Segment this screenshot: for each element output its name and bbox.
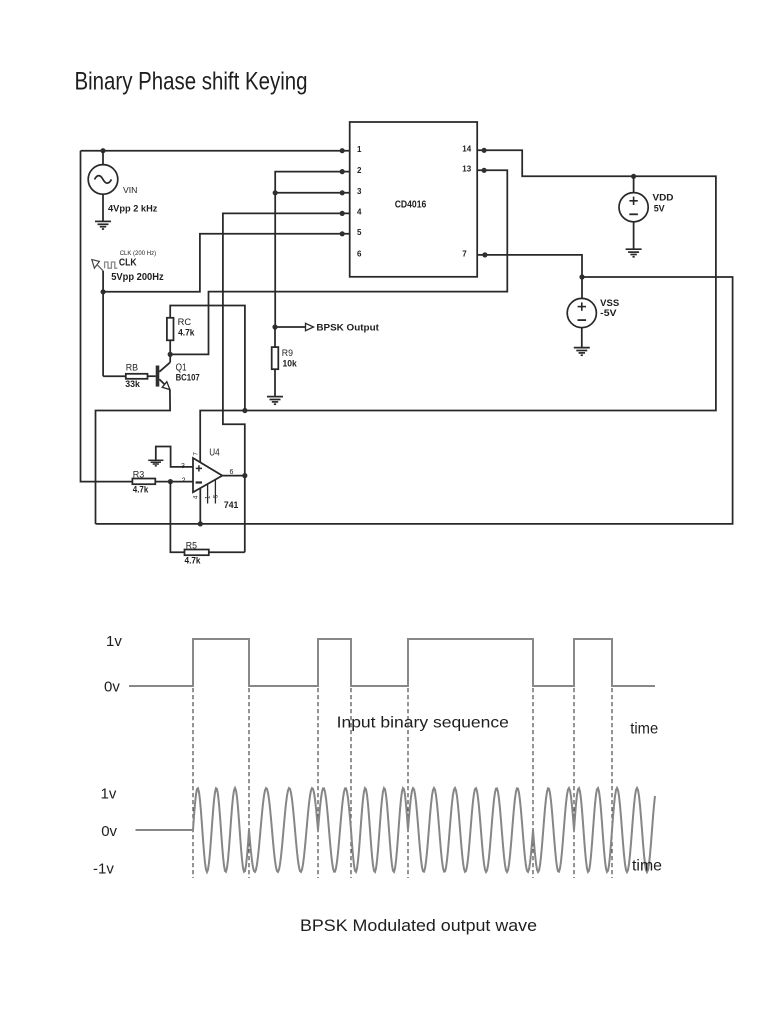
svg-text:VIN: VIN xyxy=(123,185,137,195)
svg-text:VSS: VSS xyxy=(600,298,619,308)
ground VDD xyxy=(626,249,642,257)
wire RC bottom to collector xyxy=(169,340,171,362)
svg-text:5Vpp 200Hz: 5Vpp 200Hz xyxy=(111,271,164,283)
wire pin 14 to VDD rail xyxy=(200,150,716,462)
wire pin 13 to collector node xyxy=(170,170,507,354)
svg-text:CD4016: CD4016 xyxy=(395,199,427,211)
wire pin 2 xyxy=(275,172,350,327)
node BPSK dot xyxy=(272,324,277,329)
node VDD tap dot xyxy=(631,174,636,179)
svg-text:Binary Phase shift Keying: Binary Phase shift Keying xyxy=(75,67,308,95)
node pin4 dot xyxy=(340,211,345,216)
svg-text:5V: 5V xyxy=(654,204,665,214)
transistor Q1 emitter arrowhead xyxy=(162,382,170,390)
node pin1 junction dot xyxy=(340,148,345,153)
wire R5 right up to op-amp output xyxy=(209,551,245,553)
svg-text:4.7k: 4.7k xyxy=(178,328,195,338)
waveform plot: BPSK modulated sine xyxy=(136,788,656,872)
svg-text:33k: 33k xyxy=(125,379,141,389)
node pin5 dot xyxy=(340,231,345,236)
svg-text:5: 5 xyxy=(213,494,219,498)
IC U2 CD4016 body xyxy=(350,122,478,277)
op-amp U4 triangle xyxy=(193,458,222,492)
svg-text:Input binary sequence: Input binary sequence xyxy=(337,715,509,732)
BPSK sine wave xyxy=(136,788,656,872)
source VSS stem bottom xyxy=(581,328,583,348)
svg-text:BC107: BC107 xyxy=(176,372,200,382)
ground R9 xyxy=(267,397,283,405)
svg-text:4.7k: 4.7k xyxy=(185,555,202,565)
svg-text:U4: U4 xyxy=(209,447,220,458)
wire pin 7 to VSS xyxy=(477,255,582,299)
node VIN top junction dot xyxy=(100,148,105,153)
resistor RB body xyxy=(126,374,148,379)
wire op-amp output xyxy=(222,475,245,477)
svg-text:1v: 1v xyxy=(106,633,122,650)
svg-text:BPSK Output: BPSK Output xyxy=(316,322,379,333)
op-amp stub pin 1 xyxy=(207,484,209,504)
node R3 junction dot xyxy=(168,479,173,484)
resistor R3 body xyxy=(132,479,155,485)
transistor Q1 base bar xyxy=(156,366,160,387)
resistor RC body xyxy=(167,318,174,341)
wire BPSK output xyxy=(275,326,306,328)
svg-text:RC: RC xyxy=(178,317,192,327)
svg-text:13: 13 xyxy=(462,165,471,174)
wire CLK to pin 5 xyxy=(103,234,350,292)
VDD plus sign xyxy=(629,197,637,205)
svg-text:7: 7 xyxy=(194,452,200,456)
wire pin 3 xyxy=(275,192,350,194)
VDD minus sign xyxy=(629,213,638,215)
node pins 2-3 junction dot xyxy=(273,190,278,195)
wire VSS rail right and bottom xyxy=(96,277,733,524)
wire emitter down to VSS rail xyxy=(96,390,171,524)
svg-text:6: 6 xyxy=(357,250,362,259)
node CLK junction dot xyxy=(101,289,106,294)
wire R9 top xyxy=(274,327,276,347)
svg-text:VDD: VDD xyxy=(653,192,675,202)
svg-text:4Vpp 2 kHz: 4Vpp 2 kHz xyxy=(108,204,158,215)
dashed bit boundary lines xyxy=(193,688,612,878)
wire left border down to R3 xyxy=(81,151,133,482)
svg-text:14: 14 xyxy=(462,144,471,153)
svg-text:4: 4 xyxy=(357,208,362,217)
resistor R5 body xyxy=(185,550,209,556)
svg-text:time: time xyxy=(632,858,662,875)
svg-text:4.7k: 4.7k xyxy=(133,485,149,495)
source VIN sine symbol xyxy=(95,176,112,184)
node pin3 dot xyxy=(340,190,345,195)
node pin13 dot xyxy=(482,168,487,173)
wire RB right to base xyxy=(148,375,156,377)
svg-text:2: 2 xyxy=(357,166,362,175)
wire R3 node down to R5 xyxy=(170,482,184,553)
ground VSS xyxy=(574,348,590,356)
source VIN stem bottom xyxy=(102,194,104,221)
node RC-VDD dot xyxy=(242,408,247,413)
source VSS circle xyxy=(567,298,596,327)
svg-text:10k: 10k xyxy=(283,359,298,369)
transistor Q1 collector lead xyxy=(159,362,170,372)
BPSK output arrowhead xyxy=(306,323,314,330)
wire CLK down to RB xyxy=(102,271,104,376)
source VDD stem xyxy=(633,176,635,192)
svg-text:0v: 0v xyxy=(104,679,120,696)
port CLK symbol triangle xyxy=(92,260,100,269)
wire R3 right to op-amp - input xyxy=(155,481,193,483)
wire top rail VIN to pin 1 xyxy=(81,150,350,152)
op-amp stub pin 5 xyxy=(214,480,216,504)
source VIN circle xyxy=(88,165,118,195)
svg-text:3: 3 xyxy=(357,187,362,196)
node op-amp output dot xyxy=(242,473,247,478)
source VDD stem bottom xyxy=(633,222,635,249)
ground VIN xyxy=(95,221,111,229)
node VSS junction dot xyxy=(579,274,584,279)
ground op-amp + input xyxy=(148,460,163,466)
op-amp V- pin below xyxy=(199,488,201,524)
svg-text:1v: 1v xyxy=(101,786,117,803)
VSS plus sign xyxy=(578,302,586,310)
svg-text:7: 7 xyxy=(462,250,467,259)
wire pin 4 down xyxy=(223,213,350,552)
wire R9 bottom xyxy=(274,369,276,396)
source VIN stem top xyxy=(102,151,104,165)
svg-text:RB: RB xyxy=(126,363,138,373)
op-amp plus symbol xyxy=(196,465,202,471)
wire op-amp + input to ground xyxy=(156,447,193,467)
svg-text:-1v: -1v xyxy=(93,861,114,878)
VSS minus sign xyxy=(578,319,587,321)
svg-text:741: 741 xyxy=(224,500,239,511)
source VDD circle xyxy=(619,193,648,222)
svg-text:time: time xyxy=(630,721,658,738)
port CLK connector xyxy=(98,265,104,271)
svg-text:CLK: CLK xyxy=(119,256,137,268)
svg-text:BPSK Modulated output wave: BPSK Modulated output wave xyxy=(300,917,537,935)
wire RC top to VDD rail xyxy=(170,306,245,411)
binary square wave xyxy=(129,639,655,686)
svg-text:1: 1 xyxy=(357,145,362,154)
svg-text:R5: R5 xyxy=(186,541,197,551)
wire RB left xyxy=(103,375,126,377)
resistor R9 body xyxy=(272,347,279,369)
svg-text:R3: R3 xyxy=(133,470,145,480)
svg-text:R9: R9 xyxy=(282,348,293,358)
node op-amp V- dot xyxy=(198,521,203,526)
svg-text:4: 4 xyxy=(194,495,200,499)
svg-text:-5V: -5V xyxy=(600,308,616,318)
node pin2 dot xyxy=(340,169,345,174)
CLK square wave glyph xyxy=(105,262,118,268)
node pin7 dot xyxy=(482,252,487,257)
waveform plot: binary sequence xyxy=(129,639,655,686)
transistor Q1 emitter lead xyxy=(159,379,170,389)
op-amp minus symbol xyxy=(196,481,202,483)
svg-text:1: 1 xyxy=(206,495,212,499)
svg-text:0v: 0v xyxy=(101,823,117,840)
node pin14 dot xyxy=(482,148,487,153)
svg-text:5: 5 xyxy=(357,228,362,237)
node collector dot xyxy=(168,352,173,357)
